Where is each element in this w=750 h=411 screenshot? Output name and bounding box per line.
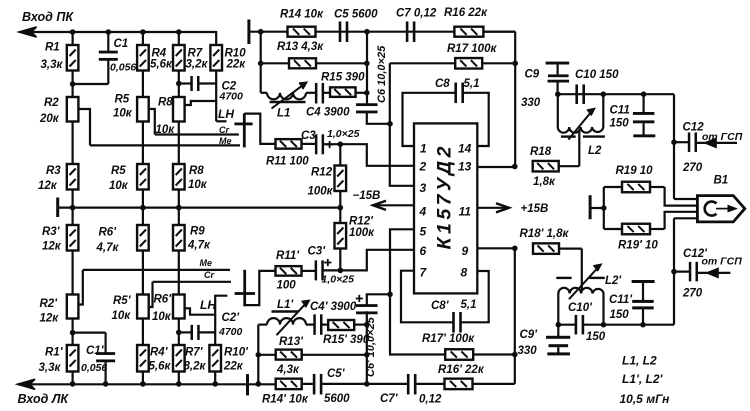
wire middle top bus <box>249 31 516 33</box>
svg-text:R15' 390: R15' 390 <box>323 334 370 346</box>
wire R6' wiper bracket to LH contact bottom <box>185 296 228 315</box>
potentiometer R2 <box>67 97 79 122</box>
svg-text:C11': C11' <box>609 294 633 306</box>
wire bottom bus middle <box>276 383 315 385</box>
inductor L2' arrow <box>569 265 601 300</box>
terminal plate R19 input <box>589 195 592 219</box>
inductor L2' core dashes <box>556 277 605 279</box>
capacitor C6 <box>356 103 378 113</box>
wire R5' wiper to Cr line <box>149 282 153 307</box>
potentiometer R8 <box>173 97 185 122</box>
potentiometer R5' <box>137 295 149 319</box>
junction R1-C1 node <box>70 81 76 87</box>
inductor L1 core dash <box>270 101 306 103</box>
svg-text:R1: R1 <box>45 42 60 54</box>
wire R16' to output column <box>473 383 515 385</box>
resistor R14' <box>276 379 302 390</box>
capacitor C1 <box>99 32 118 84</box>
svg-text:4,3к: 4,3к <box>276 364 300 376</box>
resistor R8 lower <box>173 164 185 190</box>
resistor R13 <box>289 58 316 68</box>
inductor L1 <box>267 93 306 100</box>
svg-text:6: 6 <box>420 244 427 258</box>
junction top bus R7 <box>176 29 182 35</box>
resistor R1 <box>67 45 79 71</box>
terminal plate central bus <box>56 198 59 218</box>
svg-text:C12: C12 <box>683 122 705 134</box>
svg-text:R12': R12' <box>349 216 374 228</box>
wire R19 loop left vertical <box>603 187 605 229</box>
capacitor C12' <box>674 262 698 282</box>
wire GSP input arrow top <box>696 139 737 148</box>
capacitor C2 <box>179 76 216 91</box>
svg-text:R5': R5' <box>113 295 132 307</box>
resistor R1' <box>67 345 79 372</box>
wire feedback column R17 to pin3 <box>390 63 414 186</box>
svg-text:R11': R11' <box>276 250 300 262</box>
svg-text:L1: L1 <box>277 108 290 120</box>
svg-text:4,7к: 4,7к <box>96 242 120 254</box>
svg-text:+15В: +15В <box>521 203 549 215</box>
capacitor C10 <box>575 84 585 104</box>
svg-text:12к: 12к <box>42 241 62 253</box>
junction central bus R3 <box>70 205 76 211</box>
wire R6' pot bottom to R7' <box>178 319 180 346</box>
wire top-left bus corner to R10 <box>215 31 217 45</box>
svg-text:C10 150: C10 150 <box>575 69 619 81</box>
junction R1'-C1' node <box>70 330 76 336</box>
svg-text:3,2к: 3,2к <box>186 59 209 71</box>
capacitor C4 <box>315 83 324 104</box>
wire R19 input lead <box>590 207 604 209</box>
inductor L2 arrow <box>568 109 594 140</box>
junction feedback column C6 <box>387 121 393 127</box>
capacitor C10' <box>575 315 585 335</box>
inductor L2' with frame <box>558 288 603 325</box>
capacitor C8' <box>452 312 462 333</box>
wire GSP input arrow bottom <box>697 269 731 278</box>
svg-text:L2: L2 <box>588 145 602 157</box>
svg-text:C5 5600: C5 5600 <box>334 9 378 21</box>
terminal plate middle bus top <box>247 20 250 45</box>
junction central bus R12 <box>338 205 344 211</box>
junction tank bottom left <box>556 322 562 328</box>
svg-text:4700: 4700 <box>218 326 243 338</box>
svg-text:R13 4,3к: R13 4,3к <box>277 41 324 53</box>
svg-text:5: 5 <box>420 225 427 239</box>
wire R13 row <box>261 62 367 64</box>
resistor R11 <box>276 139 317 149</box>
svg-text:Вход ЛК: Вход ЛК <box>18 392 70 406</box>
inductor L1' core dash <box>272 310 299 312</box>
wire L1 row left <box>261 92 267 94</box>
wire R4 column top <box>142 32 144 45</box>
svg-text:C9: C9 <box>525 69 540 81</box>
svg-text:R16 22к: R16 22к <box>444 7 488 19</box>
svg-text:5,1: 5,1 <box>464 78 480 90</box>
svg-text:R2: R2 <box>44 97 59 109</box>
svg-text:R7': R7' <box>185 347 204 359</box>
junction C3-R12 node <box>338 141 344 147</box>
label coil values <box>620 354 671 407</box>
svg-text:20к: 20к <box>39 113 60 125</box>
junction bottom bus C1' <box>103 381 109 387</box>
wire central bus <box>58 207 341 209</box>
svg-text:R10': R10' <box>224 347 249 359</box>
svg-text:C1': C1' <box>86 345 105 357</box>
svg-text:5600: 5600 <box>324 393 350 405</box>
svg-text:0,12: 0,12 <box>419 394 442 406</box>
junction feedback column C6' <box>387 292 393 298</box>
svg-text:LH: LH <box>200 298 216 312</box>
wire R7 column to R8 pot <box>178 71 180 98</box>
resistor R18' <box>533 243 582 254</box>
junction left column R13 <box>258 61 264 67</box>
junction C6' column bus <box>364 381 370 387</box>
svg-text:R3: R3 <box>46 165 61 177</box>
capacitor C12 <box>674 132 697 152</box>
svg-text:8,2к: 8,2к <box>184 361 207 373</box>
resistor R4' <box>137 345 149 372</box>
wire bus C5' to C7' <box>321 383 409 385</box>
svg-text:R14 10к: R14 10к <box>280 9 324 21</box>
wire R3 to central bus <box>71 190 73 226</box>
junction bottom bus R4' <box>140 381 146 387</box>
wire C8' to pin8 <box>460 271 488 322</box>
wire R2' wiper to Me line <box>78 270 82 305</box>
svg-text:C8': C8' <box>431 300 450 312</box>
capacitor C8 <box>454 83 464 104</box>
svg-text:3: 3 <box>420 181 427 195</box>
svg-text:Ме: Ме <box>200 258 213 268</box>
capacitor C9' <box>546 325 570 356</box>
inductor L1' <box>267 318 306 324</box>
svg-text:R2': R2' <box>40 298 59 310</box>
wire R10 column <box>215 45 217 121</box>
wire C8 to pin14 <box>463 93 489 146</box>
wire output column down to pin13 <box>514 32 516 167</box>
svg-text:5,6к: 5,6к <box>150 59 173 71</box>
junction central bus R5 <box>140 205 146 211</box>
wire switch LH contact top <box>216 120 226 122</box>
inductor L2 with frame <box>558 94 604 133</box>
junction central bus R8 <box>176 205 182 211</box>
potentiometer R5 <box>137 97 149 122</box>
wire L1' column <box>257 325 259 384</box>
wire switch Me line bottom <box>83 269 230 271</box>
svg-text:22к: 22к <box>226 59 247 71</box>
svg-text:C8: C8 <box>435 78 450 90</box>
resistor R15' <box>328 320 354 330</box>
resistor R3 <box>67 164 79 190</box>
svg-text:3,3к: 3,3к <box>41 59 64 71</box>
junction tank bottom right <box>601 322 607 328</box>
junction C12' node <box>671 269 677 275</box>
resistor R10' <box>209 345 221 372</box>
capacitor C3 <box>315 134 324 154</box>
wire C3 node to pin2 <box>340 144 414 166</box>
svg-text:10к: 10к <box>113 108 133 120</box>
junction top bus R1 <box>70 29 76 35</box>
svg-text:B1: B1 <box>714 175 729 187</box>
svg-text:13: 13 <box>458 160 472 174</box>
wire R2' bottom to R1' node <box>71 319 73 346</box>
resistor R19 <box>604 182 665 193</box>
wire R4 to R5 pot <box>142 71 144 98</box>
wire R8 lower to central bus <box>178 190 180 226</box>
wire tank bottom row right <box>583 324 674 326</box>
wire right main vertical middle <box>673 218 675 324</box>
inductor L1 arrow <box>272 83 307 109</box>
svg-text:Ме: Ме <box>219 136 232 146</box>
junction C6' column R13' <box>364 352 370 358</box>
svg-text:150: 150 <box>586 331 606 343</box>
wire pin5 and feedback column bottom <box>390 229 445 354</box>
svg-text:R18: R18 <box>530 146 552 158</box>
svg-text:−15В: −15В <box>353 190 381 202</box>
transducer B1 magnetic head <box>697 196 744 222</box>
svg-text:330: 330 <box>518 345 538 357</box>
svg-text:R9: R9 <box>190 226 205 238</box>
junction C11' bottom <box>640 322 646 328</box>
svg-text:R6': R6' <box>154 294 173 306</box>
junction output column R17' <box>512 352 518 358</box>
svg-text:10к: 10к <box>152 311 172 323</box>
svg-text:R11 100: R11 100 <box>266 156 309 168</box>
junction output column R17 <box>512 61 518 67</box>
resistor R16 <box>454 27 483 37</box>
resistor R7 <box>173 45 185 71</box>
svg-text:R12: R12 <box>311 167 333 179</box>
svg-text:10к: 10к <box>109 180 129 192</box>
svg-text:10к: 10к <box>112 310 132 322</box>
svg-text:R13': R13' <box>279 336 304 348</box>
svg-text:C7': C7' <box>380 393 399 405</box>
wire L1' to C4' <box>306 324 315 326</box>
junction L1' column R13' <box>255 352 261 358</box>
resistor R13' <box>258 350 367 360</box>
junction C3'-R12' node <box>338 268 344 274</box>
terminal plate switch common bottom <box>235 270 255 307</box>
svg-text:0,056: 0,056 <box>110 62 136 74</box>
wire L2 tank top row <box>558 93 674 95</box>
svg-text:R19' 10: R19' 10 <box>618 240 658 252</box>
capacitor C2' <box>179 325 215 340</box>
inductor L1' arrow <box>277 301 310 336</box>
svg-text:L1, L2: L1, L2 <box>622 354 657 368</box>
wire pin4 supply arrow minus15V <box>373 201 414 210</box>
wire R8 pot bottom to R8 resistor <box>178 122 180 165</box>
wire switch Me line top <box>90 144 240 146</box>
resistor R3' <box>67 225 79 251</box>
resistor R17 <box>390 58 515 69</box>
svg-text:1,8к: 1,8к <box>533 176 556 188</box>
svg-text:L1': L1' <box>277 299 294 311</box>
wire bus C7' to R16' <box>415 383 445 385</box>
junction middle bus left column <box>258 29 264 35</box>
wire left column R14-R13-L1 <box>260 32 262 93</box>
wire R1 bottom to node <box>71 71 73 98</box>
wire switch common to R11 <box>244 114 275 144</box>
wire R7' to bottom bus <box>178 372 180 384</box>
svg-text:8: 8 <box>461 266 468 280</box>
svg-text:Вход ПК: Вход ПК <box>22 10 74 24</box>
svg-text:150: 150 <box>610 118 630 130</box>
terminal plate middle bus bottom <box>246 374 249 395</box>
svg-text:Cr: Cr <box>219 125 229 135</box>
wire R1 column top <box>71 32 73 45</box>
junction pin13 node <box>512 164 518 170</box>
wire C6 column upper <box>366 32 368 105</box>
capacitor C4' <box>313 314 322 335</box>
wire switch Cr line bottom <box>153 281 232 283</box>
svg-text:10к: 10к <box>188 179 208 191</box>
svg-text:C1: C1 <box>114 38 129 50</box>
svg-text:К157УД2: К157УД2 <box>434 143 456 249</box>
wire L1 to C4 <box>306 92 316 94</box>
svg-text:5,6к: 5,6к <box>149 361 172 373</box>
wire input PK arrow <box>19 27 216 37</box>
svg-text:C6 10,0×25: C6 10,0×25 <box>376 45 388 103</box>
svg-text:11: 11 <box>459 205 472 219</box>
svg-text:12к: 12к <box>40 313 60 325</box>
svg-text:C5': C5' <box>327 368 346 380</box>
potentiometer R2' <box>67 295 79 319</box>
wire C3 to junction <box>323 143 341 145</box>
wire R10' to bottom bus <box>214 372 216 384</box>
svg-text:14: 14 <box>458 142 472 156</box>
resistor R17' <box>445 349 473 360</box>
wire head shield lead bottom <box>674 217 697 219</box>
svg-text:R5: R5 <box>111 165 126 177</box>
svg-text:9: 9 <box>462 244 469 258</box>
svg-text:C3: C3 <box>301 130 316 142</box>
svg-text:1,0×25: 1,0×25 <box>322 274 355 286</box>
wire pin1 to C8 <box>403 93 456 146</box>
wire pin13 stub <box>477 166 515 168</box>
junction R7'-C2' <box>176 330 182 336</box>
wire switch common bottom to R11' <box>245 271 276 305</box>
svg-text:R3': R3' <box>42 226 61 238</box>
wire R9 to R6' pot <box>178 251 180 295</box>
svg-text:1,0×25: 1,0×25 <box>327 128 360 140</box>
svg-text:R16' 22к: R16' 22к <box>438 364 485 376</box>
svg-text:22к: 22к <box>223 361 244 373</box>
junction bottom bus L1' column <box>255 381 261 387</box>
svg-text:10,5 мГн: 10,5 мГн <box>620 392 671 406</box>
wire R19 to head lead <box>665 187 698 206</box>
wire R4' to bottom bus <box>142 372 144 384</box>
wire R15 to C6 column <box>356 92 367 94</box>
junction tank right <box>601 91 607 97</box>
svg-text:10к: 10к <box>156 124 176 136</box>
junction top bus C1 <box>106 29 112 35</box>
capacitor C11 <box>633 94 655 137</box>
svg-text:R8: R8 <box>189 165 204 177</box>
resistor R19' <box>604 224 665 235</box>
resistor R16' <box>445 379 473 390</box>
resistor R10 <box>210 45 222 71</box>
svg-text:R8: R8 <box>158 97 173 109</box>
wire node to C1 bottom <box>73 83 109 85</box>
svg-text:270: 270 <box>682 288 703 300</box>
svg-text:1: 1 <box>420 142 427 156</box>
svg-text:3,3к: 3,3к <box>39 362 62 374</box>
resistor R15 <box>330 87 356 97</box>
wire R2 wiper to Me line <box>78 109 90 145</box>
wire C3' to junction <box>323 269 341 271</box>
wire R18' to L2' tap <box>581 249 583 291</box>
svg-text:4: 4 <box>419 205 427 219</box>
junction C6 column R13 <box>364 61 370 67</box>
junction top bus R4 <box>140 29 146 35</box>
svg-text:R1': R1' <box>45 347 64 359</box>
junction C12 node <box>671 139 677 145</box>
svg-text:C11: C11 <box>610 105 630 117</box>
wire R5' bottom to R4' <box>142 319 144 346</box>
svg-text:C3': C3' <box>308 246 327 258</box>
resistor R9 <box>173 225 185 251</box>
capacitor C1' <box>96 333 115 384</box>
svg-text:R14' 10к: R14' 10к <box>262 394 309 406</box>
wire R15' to C6' column <box>354 324 367 326</box>
resistor R12' <box>335 208 347 271</box>
resistor R4 <box>137 45 149 71</box>
svg-text:5,1: 5,1 <box>461 299 477 311</box>
resistor R12 <box>335 144 347 207</box>
svg-text:Cr: Cr <box>204 270 214 280</box>
svg-text:R15 390: R15 390 <box>321 72 365 84</box>
resistor R14 <box>288 27 316 37</box>
wire R8 wiper bracket to LH contact <box>185 101 217 105</box>
wire R2 bottom to R3 <box>71 122 73 165</box>
wire node to C1' <box>73 332 106 334</box>
wire C6' column lower <box>366 311 368 384</box>
wire R5 wiper to Cr line <box>149 109 155 135</box>
wire R16 to output column <box>484 31 516 33</box>
junction bottom bus R10' <box>212 381 218 387</box>
wire R3' to R2' pot <box>71 251 73 295</box>
svg-text:R6': R6' <box>99 227 118 239</box>
wire C6' top jog <box>367 294 390 305</box>
resistor R7' <box>173 345 185 372</box>
svg-text:R17' 100к: R17' 100к <box>422 333 475 345</box>
svg-text:C10': C10' <box>568 302 593 314</box>
wire pin7 to C8' <box>401 271 453 323</box>
wire head shield lead top <box>674 198 697 200</box>
resistor R18 <box>533 161 580 172</box>
capacitor C7' <box>407 374 417 395</box>
svg-text:100к: 100к <box>349 227 375 239</box>
capacitor C6' <box>356 304 378 314</box>
potentiometer R6' <box>173 295 185 319</box>
wire C4' to R15' <box>321 324 328 326</box>
junction C6' column R15' <box>364 322 370 328</box>
resistor R5 lower <box>137 164 149 190</box>
svg-text:LH: LH <box>218 107 234 121</box>
junction C6 column R15 <box>364 90 370 96</box>
wire pin11 supply arrow plus15V <box>477 203 509 212</box>
wire R17' to output column <box>473 353 515 355</box>
wire R7 column top <box>178 32 180 45</box>
svg-text:12к: 12к <box>38 180 58 192</box>
svg-text:0,056: 0,056 <box>81 362 107 374</box>
svg-text:от ГСП: от ГСП <box>702 256 743 268</box>
wire R19' to head lead <box>665 212 698 229</box>
wire R5 pot bottom to R5 resistor <box>142 122 144 165</box>
wire pin9 stub <box>477 247 515 249</box>
capacitor C3' <box>315 260 324 280</box>
